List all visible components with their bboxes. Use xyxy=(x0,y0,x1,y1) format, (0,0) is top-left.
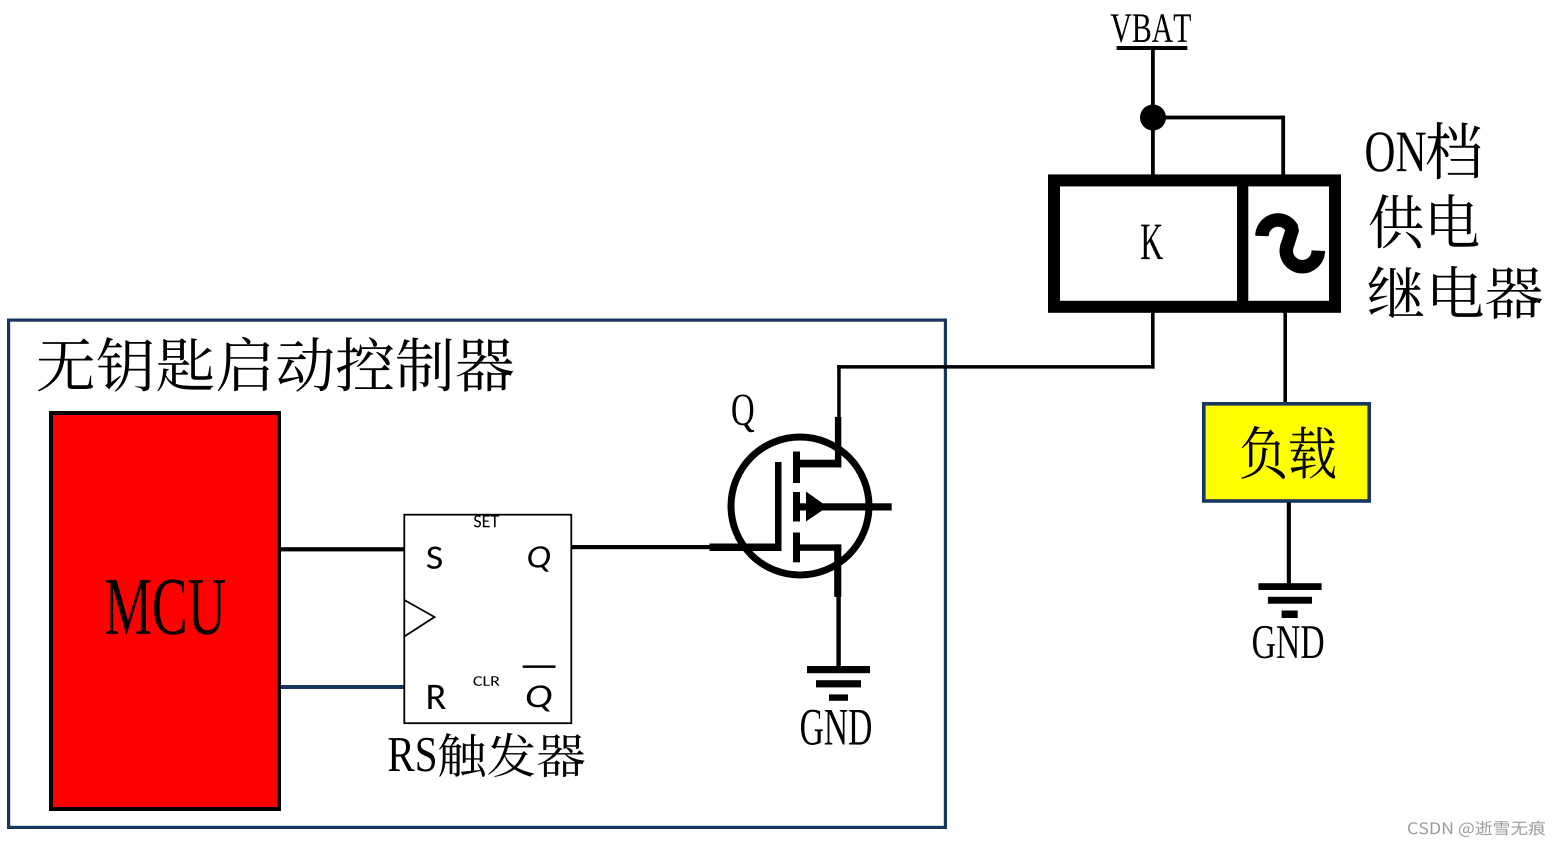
relay coil wave symbol xyxy=(1255,213,1325,273)
wire Q output to gate xyxy=(571,545,710,549)
MOSFET source stub xyxy=(834,544,841,597)
wire VBAT to relay K xyxy=(1151,118,1155,180)
wire load to ground xyxy=(1287,502,1291,583)
MOSFET drain bar xyxy=(793,460,841,468)
label: keyless start controller title 无钥匙启动控制器 xyxy=(38,337,513,392)
ground GND2 bar1 xyxy=(1258,583,1321,590)
wire MCU to R input xyxy=(281,685,405,689)
load box xyxy=(1204,404,1369,501)
load label 负载 xyxy=(1241,426,1335,479)
relay label line1 档 part xyxy=(1427,122,1481,179)
label MCU xyxy=(106,580,225,635)
MOSFET Q1 circle xyxy=(731,437,869,575)
wire coil to load xyxy=(1283,307,1287,403)
relay label line3 继电器 xyxy=(1369,266,1543,319)
relay label line2 供电 xyxy=(1370,194,1479,248)
label RS trigger 触发器 part xyxy=(439,733,585,777)
relay label line1 ON part xyxy=(1366,132,1425,172)
pin label Q output xyxy=(528,546,550,572)
pin label R xyxy=(428,685,446,709)
MOSFET body arrow xyxy=(806,492,828,522)
pin label S xyxy=(427,547,442,569)
wire branch horizontal xyxy=(1153,116,1283,120)
MOSFET source bar xyxy=(798,544,841,550)
ground GND1 bar3 xyxy=(829,694,848,700)
wire source to ground xyxy=(836,595,840,667)
MCU block U1 xyxy=(51,413,279,809)
flip-flop clock triangle xyxy=(404,600,434,637)
watermark CSDN @逝雪无痕 xyxy=(1408,821,1545,837)
label GND1 xyxy=(801,710,871,745)
transistor label Q xyxy=(732,395,754,433)
relay K outer box xyxy=(1054,180,1335,306)
VBAT underline xyxy=(1117,46,1188,50)
MOSFET body bar xyxy=(793,503,892,510)
ground GND1 bar2 xyxy=(816,680,861,687)
ground GND2 bar3 xyxy=(1282,611,1298,619)
label GND2 xyxy=(1253,626,1323,659)
ground GND2 bar2 xyxy=(1268,597,1312,604)
MOSFET channel top segment xyxy=(793,452,800,484)
wire drain up xyxy=(837,365,841,417)
keyless start controller box xyxy=(9,320,946,827)
MOSFET channel bottom segment xyxy=(793,533,800,563)
wire drain horizontal to relay K xyxy=(837,365,1154,369)
MOSFET gate stub xyxy=(710,544,782,552)
wire branch down to coil xyxy=(1281,116,1285,180)
label RS trigger RS part xyxy=(389,738,436,772)
supply label VBAT xyxy=(1111,14,1191,42)
wire relay K bottom pin xyxy=(1151,307,1155,369)
label CLR xyxy=(474,676,500,686)
junction node dot xyxy=(1140,105,1166,131)
MOSFET drain stub xyxy=(835,417,841,468)
label SET xyxy=(474,515,499,527)
pin label Q-bar output xyxy=(527,685,552,711)
ground GND1 bar1 xyxy=(807,666,870,673)
RS flip-flop U2 body xyxy=(404,515,571,724)
wire VBAT down xyxy=(1151,50,1155,118)
Q-bar overline xyxy=(523,665,556,668)
MOSFET channel middle segment xyxy=(793,492,800,522)
MOSFET gate bar xyxy=(775,462,782,548)
relay divider xyxy=(1237,186,1248,301)
wire MCU to S input xyxy=(281,547,405,551)
relay contact label K xyxy=(1141,225,1163,260)
